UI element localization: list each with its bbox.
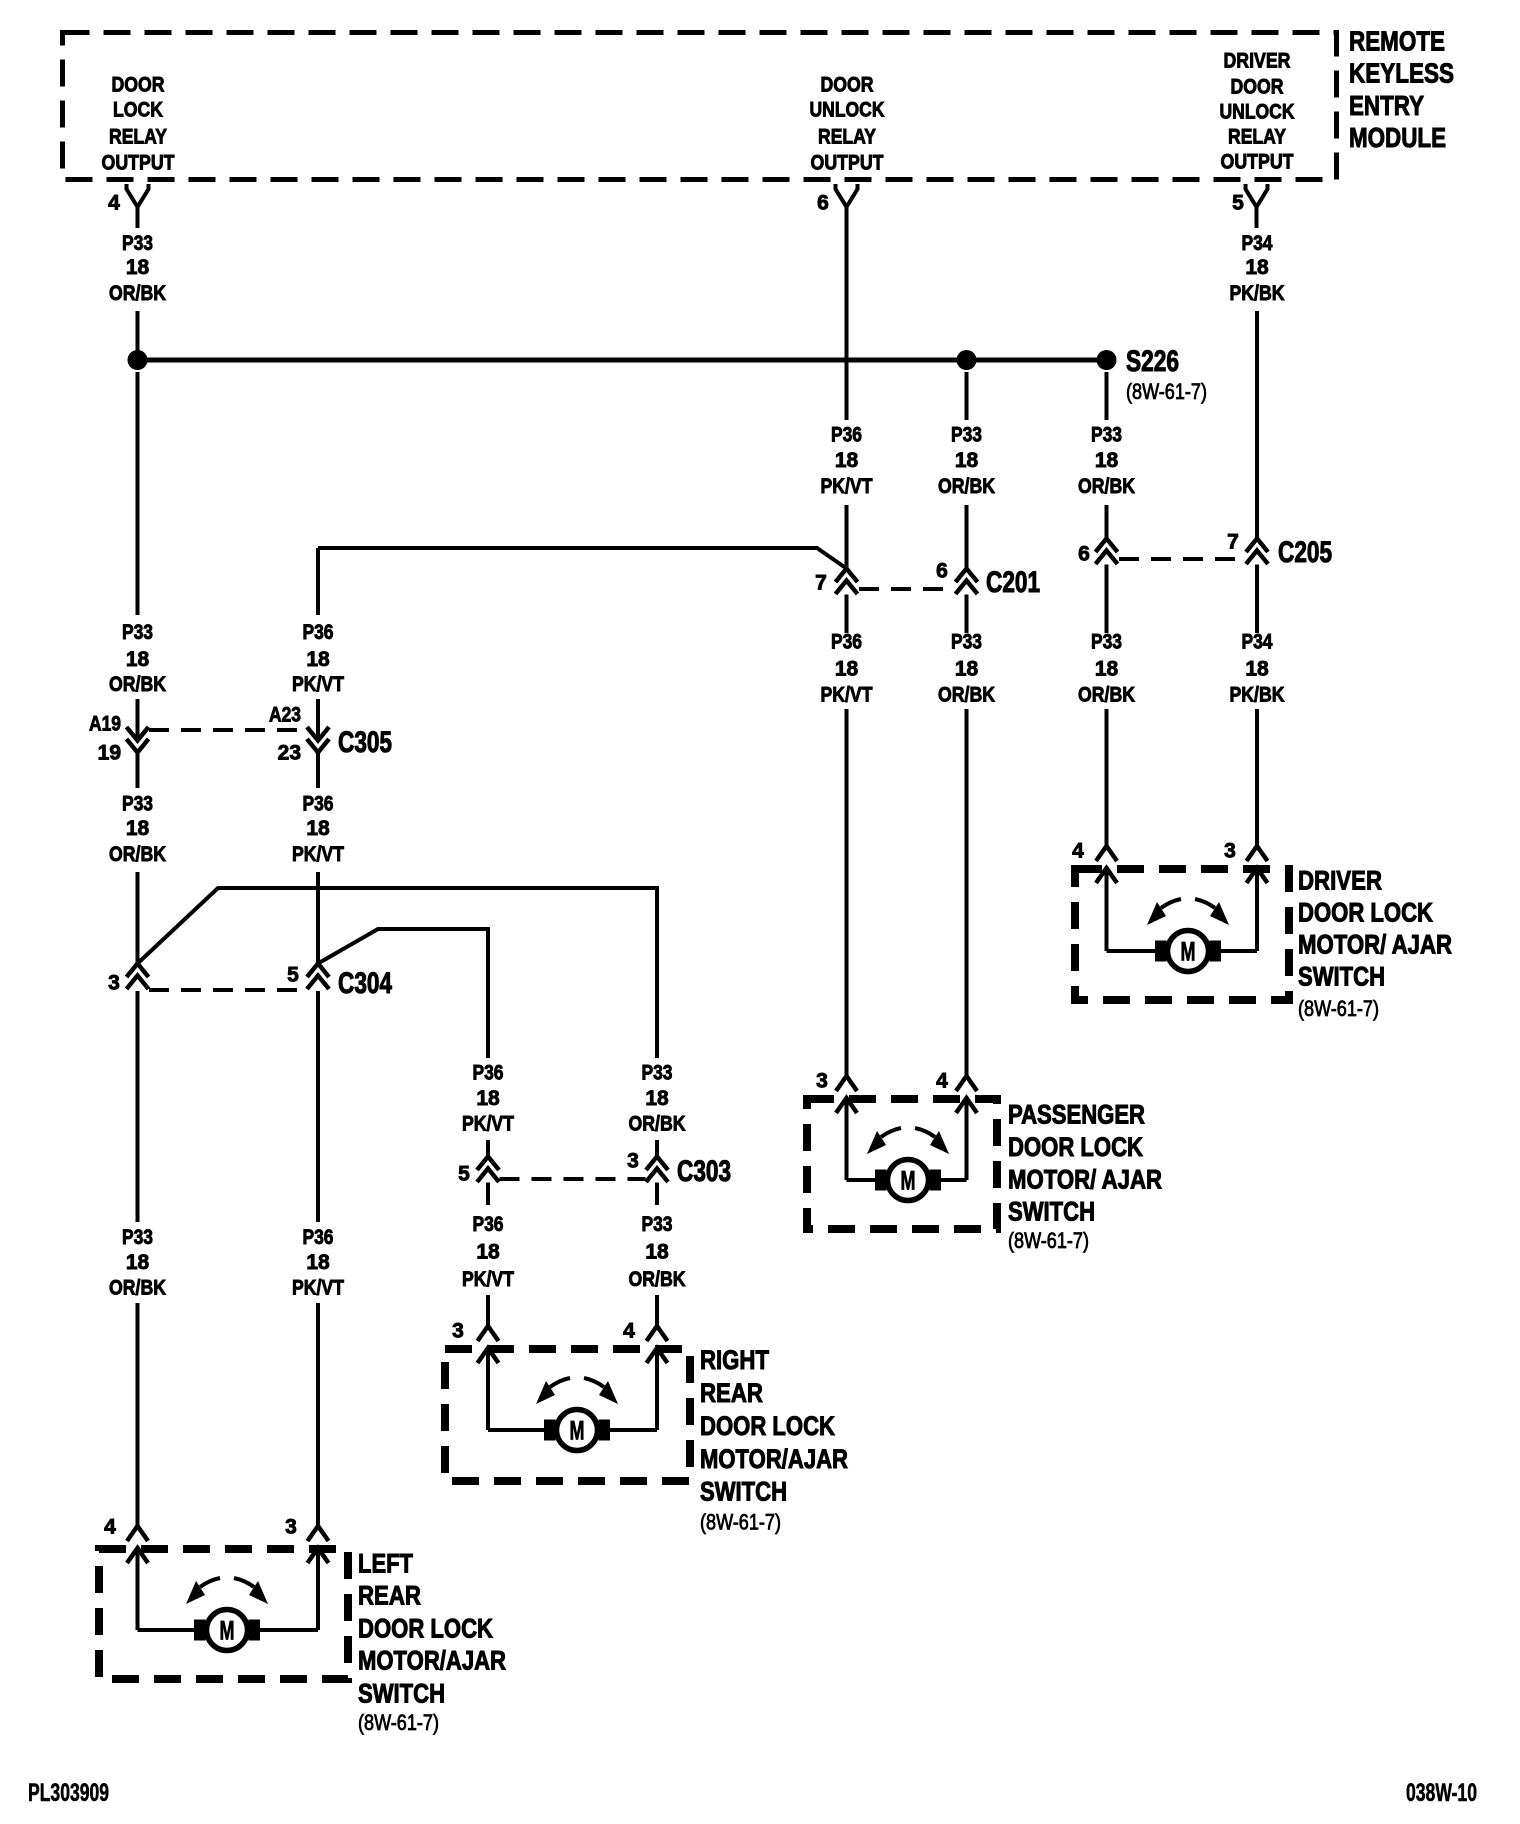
svg-text:RELAY: RELAY — [109, 126, 167, 149]
svg-text:038W-10: 038W-10 — [1406, 1779, 1477, 1807]
svg-text:4: 4 — [108, 192, 120, 215]
svg-text:MOTOR/AJAR: MOTOR/AJAR — [700, 1444, 848, 1474]
svg-text:REAR: REAR — [700, 1378, 763, 1408]
svg-text:UNLOCK: UNLOCK — [1220, 101, 1295, 124]
svg-text:P36: P36 — [303, 1226, 334, 1249]
svg-text:PK/VT: PK/VT — [292, 1277, 344, 1300]
svg-text:DOOR LOCK: DOOR LOCK — [358, 1614, 493, 1644]
svg-text:C201: C201 — [986, 566, 1040, 599]
svg-text:P36: P36 — [303, 793, 334, 816]
svg-text:M: M — [1181, 937, 1196, 967]
svg-text:P33: P33 — [951, 424, 982, 447]
svg-text:PK/VT: PK/VT — [462, 1113, 514, 1136]
svg-text:PK/BK: PK/BK — [1230, 684, 1285, 707]
svg-text:18: 18 — [126, 648, 150, 671]
svg-text:OUTPUT: OUTPUT — [102, 152, 175, 175]
svg-text:KEYLESS: KEYLESS — [1349, 58, 1454, 89]
svg-text:P33: P33 — [1091, 424, 1122, 447]
svg-text:S226: S226 — [1126, 345, 1179, 378]
svg-text:5: 5 — [287, 964, 299, 987]
svg-text:19: 19 — [98, 742, 121, 765]
svg-text:4: 4 — [1072, 840, 1084, 863]
svg-text:P36: P36 — [303, 621, 334, 644]
svg-text:6: 6 — [936, 560, 948, 583]
svg-text:6: 6 — [817, 192, 829, 215]
svg-text:P33: P33 — [122, 621, 153, 644]
svg-text:RELAY: RELAY — [1228, 126, 1286, 149]
svg-text:(8W-61-7): (8W-61-7) — [1008, 1228, 1089, 1253]
svg-text:3: 3 — [285, 1516, 297, 1539]
svg-text:DRIVER: DRIVER — [1298, 866, 1382, 896]
svg-text:(8W-61-7): (8W-61-7) — [358, 1710, 439, 1735]
svg-text:18: 18 — [1245, 256, 1269, 279]
svg-text:18: 18 — [645, 1241, 669, 1264]
svg-text:18: 18 — [835, 449, 859, 472]
svg-text:18: 18 — [306, 1251, 330, 1274]
svg-text:4: 4 — [623, 1320, 635, 1343]
svg-text:DOOR: DOOR — [1231, 76, 1284, 99]
svg-text:P36: P36 — [831, 424, 862, 447]
svg-text:M: M — [570, 1416, 585, 1446]
svg-text:3: 3 — [816, 1070, 828, 1093]
svg-text:18: 18 — [955, 449, 979, 472]
svg-text:4: 4 — [936, 1070, 948, 1093]
svg-text:PK/VT: PK/VT — [821, 475, 873, 498]
svg-text:P36: P36 — [473, 1213, 504, 1236]
svg-text:6: 6 — [1078, 543, 1090, 566]
svg-text:P33: P33 — [122, 1226, 153, 1249]
svg-text:(8W-61-7): (8W-61-7) — [700, 1509, 781, 1534]
svg-text:OR/BK: OR/BK — [629, 1268, 686, 1291]
svg-text:P33: P33 — [951, 631, 982, 654]
svg-text:REMOTE: REMOTE — [1349, 26, 1445, 57]
svg-text:C303: C303 — [677, 1155, 731, 1188]
svg-text:DOOR: DOOR — [821, 74, 874, 97]
svg-text:P33: P33 — [642, 1213, 673, 1236]
svg-text:A23: A23 — [269, 704, 301, 727]
svg-text:LEFT: LEFT — [358, 1549, 413, 1579]
svg-text:MOTOR/ AJAR: MOTOR/ AJAR — [1298, 930, 1452, 960]
svg-text:P34: P34 — [1242, 631, 1273, 654]
svg-text:UNLOCK: UNLOCK — [810, 99, 885, 122]
svg-text:3: 3 — [108, 972, 120, 995]
svg-text:P33: P33 — [1091, 631, 1122, 654]
svg-text:PK/VT: PK/VT — [292, 673, 344, 696]
svg-text:18: 18 — [1095, 658, 1119, 681]
svg-text:P33: P33 — [122, 793, 153, 816]
svg-text:OR/BK: OR/BK — [109, 843, 166, 866]
svg-text:P36: P36 — [473, 1062, 504, 1085]
svg-text:SWITCH: SWITCH — [358, 1679, 445, 1709]
svg-text:MODULE: MODULE — [1349, 122, 1446, 153]
svg-text:OR/BK: OR/BK — [938, 684, 995, 707]
svg-text:PK/VT: PK/VT — [292, 843, 344, 866]
svg-text:P36: P36 — [831, 631, 862, 654]
svg-text:3: 3 — [627, 1150, 639, 1173]
svg-text:M: M — [220, 1616, 235, 1646]
svg-text:C305: C305 — [338, 726, 392, 759]
svg-text:PK/BK: PK/BK — [1230, 282, 1285, 305]
svg-text:SWITCH: SWITCH — [1298, 962, 1385, 992]
svg-text:7: 7 — [1227, 531, 1239, 554]
svg-text:OR/BK: OR/BK — [938, 475, 995, 498]
svg-text:DOOR LOCK: DOOR LOCK — [1008, 1132, 1143, 1162]
svg-text:18: 18 — [306, 648, 330, 671]
svg-text:OR/BK: OR/BK — [1078, 684, 1135, 707]
svg-text:18: 18 — [126, 256, 150, 279]
svg-text:3: 3 — [452, 1320, 464, 1343]
svg-text:18: 18 — [835, 658, 859, 681]
svg-text:PASSENGER: PASSENGER — [1008, 1100, 1145, 1130]
svg-text:OR/BK: OR/BK — [109, 1277, 166, 1300]
svg-text:OR/BK: OR/BK — [1078, 475, 1135, 498]
svg-text:PL303909: PL303909 — [28, 1779, 109, 1807]
svg-text:MOTOR/AJAR: MOTOR/AJAR — [358, 1646, 506, 1676]
svg-text:OR/BK: OR/BK — [109, 282, 166, 305]
svg-text:RELAY: RELAY — [818, 126, 876, 149]
svg-text:18: 18 — [306, 817, 330, 840]
svg-text:C205: C205 — [1278, 536, 1332, 569]
svg-text:4: 4 — [104, 1516, 116, 1539]
svg-text:P34: P34 — [1242, 232, 1273, 255]
svg-text:LOCK: LOCK — [113, 99, 163, 122]
svg-text:OUTPUT: OUTPUT — [1221, 151, 1294, 174]
svg-text:18: 18 — [1095, 449, 1119, 472]
svg-text:DOOR LOCK: DOOR LOCK — [700, 1411, 835, 1441]
svg-text:P33: P33 — [122, 232, 153, 255]
svg-text:23: 23 — [278, 742, 301, 765]
svg-text:18: 18 — [955, 658, 979, 681]
svg-text:OR/BK: OR/BK — [109, 673, 166, 696]
svg-text:OUTPUT: OUTPUT — [811, 152, 884, 175]
svg-text:18: 18 — [126, 1251, 150, 1274]
svg-text:DRIVER: DRIVER — [1224, 50, 1291, 73]
svg-text:(8W-61-7): (8W-61-7) — [1298, 996, 1379, 1021]
svg-text:18: 18 — [645, 1087, 669, 1110]
svg-text:(8W-61-7): (8W-61-7) — [1126, 379, 1207, 404]
svg-text:7: 7 — [815, 572, 827, 595]
svg-text:SWITCH: SWITCH — [1008, 1197, 1095, 1227]
svg-text:DOOR LOCK: DOOR LOCK — [1298, 898, 1433, 928]
svg-text:REAR: REAR — [358, 1581, 421, 1611]
svg-text:5: 5 — [458, 1163, 470, 1186]
svg-text:18: 18 — [1245, 658, 1269, 681]
svg-text:18: 18 — [126, 817, 150, 840]
svg-text:RIGHT: RIGHT — [700, 1345, 769, 1375]
svg-text:18: 18 — [476, 1241, 500, 1264]
svg-text:M: M — [901, 1166, 916, 1196]
svg-text:MOTOR/ AJAR: MOTOR/ AJAR — [1008, 1165, 1162, 1195]
svg-text:PK/VT: PK/VT — [462, 1268, 514, 1291]
svg-text:ENTRY: ENTRY — [1349, 90, 1424, 121]
svg-text:P33: P33 — [642, 1062, 673, 1085]
svg-text:PK/VT: PK/VT — [821, 684, 873, 707]
svg-text:18: 18 — [476, 1087, 500, 1110]
svg-text:5: 5 — [1232, 192, 1244, 215]
svg-text:3: 3 — [1224, 840, 1236, 863]
svg-text:A19: A19 — [89, 713, 121, 736]
svg-text:OR/BK: OR/BK — [629, 1113, 686, 1136]
svg-text:SWITCH: SWITCH — [700, 1477, 787, 1507]
svg-text:C304: C304 — [338, 967, 392, 1000]
svg-text:DOOR: DOOR — [112, 74, 165, 97]
